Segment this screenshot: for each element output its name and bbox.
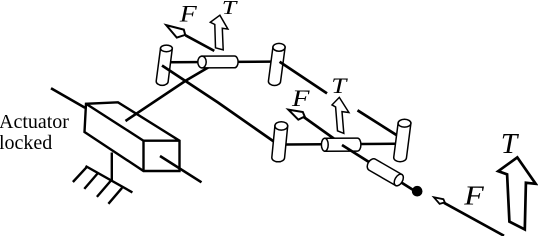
svg-text:locked: locked [0, 132, 52, 154]
svg-text:F: F [179, 2, 198, 27]
svg-text:Actuator: Actuator [0, 111, 69, 133]
svg-text:T: T [501, 128, 519, 160]
svg-text:F: F [291, 86, 310, 112]
svg-text:T: T [222, 0, 238, 19]
svg-text:F: F [463, 181, 484, 211]
svg-text:T: T [331, 73, 348, 98]
